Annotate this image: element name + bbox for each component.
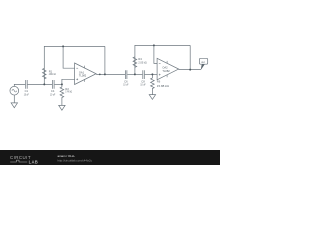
svg-text:10 uF: 10 uF	[123, 82, 128, 86]
svg-text:out: out	[201, 61, 205, 64]
svg-text:4.991 kΩ: 4.991 kΩ	[49, 72, 56, 76]
svg-text:http://circuitlab.com/c44tx2c: http://circuitlab.com/c44tx2c	[58, 158, 93, 162]
svg-text:10 uF: 10 uF	[50, 92, 55, 96]
svg-text:R4: R4	[138, 57, 142, 61]
svg-text:15.88 kΩ: 15.88 kΩ	[157, 84, 169, 88]
svg-text:10 uF: 10 uF	[140, 82, 145, 86]
svg-text:5.740 kΩ: 5.740 kΩ	[65, 90, 72, 94]
svg-text:2.05 kΩ: 2.05 kΩ	[138, 60, 146, 64]
svg-text:LAB: LAB	[29, 160, 39, 165]
svg-text:R6: R6	[157, 80, 161, 84]
svg-text:TL082: TL082	[162, 69, 170, 73]
svg-text:10 uF: 10 uF	[24, 92, 29, 96]
svg-text:TL082: TL082	[79, 74, 87, 78]
